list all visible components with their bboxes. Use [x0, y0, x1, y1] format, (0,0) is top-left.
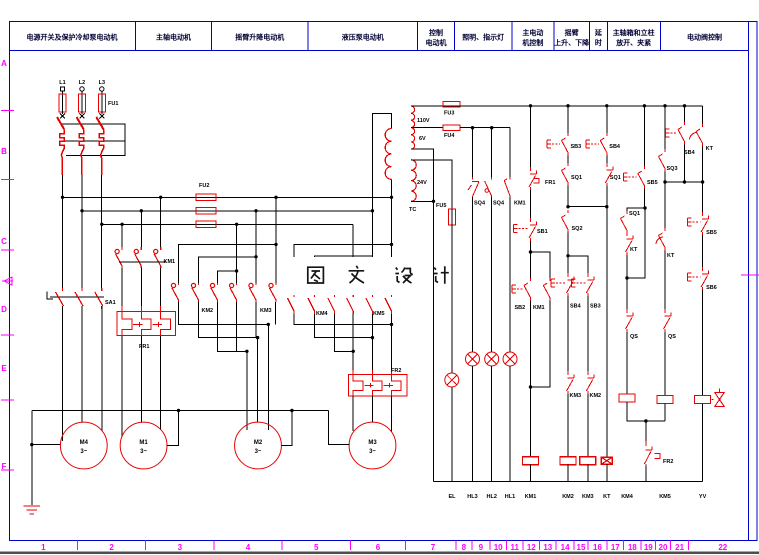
svg-text:SQ4: SQ4	[493, 201, 505, 207]
svg-text:M3: M3	[368, 440, 377, 446]
svg-text:SQ1: SQ1	[571, 175, 582, 181]
KM4 crossover feed rail 1	[294, 244, 392, 294]
svg-text:6V: 6V	[419, 136, 426, 142]
breaker QS terminal x marks	[60, 111, 104, 119]
limit switch SQ1 NO contact (arm)	[621, 211, 628, 232]
start button SB3 NO contact	[547, 133, 568, 156]
svg-text:照明、指示灯: 照明、指示灯	[462, 33, 504, 42]
svg-text:6: 6	[376, 543, 381, 552]
control circuit bottom bus	[434, 481, 703, 483]
lamp HL2	[485, 352, 499, 366]
24V top tap wire to FU5 line	[411, 160, 452, 209]
phase wire L3 vertical down to SA1	[101, 175, 103, 291]
link bar rung5-rung7	[665, 181, 703, 183]
PE earth bus horizontal	[32, 410, 329, 412]
motor M3 circle	[349, 422, 396, 469]
svg-text:A: A	[1, 59, 7, 68]
svg-text:5: 5	[314, 543, 319, 552]
thermal relay FR1 NC contact	[529, 167, 539, 190]
bottom window edge line	[0, 551, 759, 554]
svg-text:9: 9	[479, 543, 484, 552]
limit switch SQ4 contact b	[485, 177, 492, 199]
watermark text 图 文 设 计	[308, 266, 449, 284]
KM4 crossover feed rail 2	[315, 256, 373, 294]
svg-text:KM1: KM1	[514, 201, 526, 207]
svg-text:EL: EL	[448, 494, 456, 500]
svg-text:SB2: SB2	[515, 305, 526, 311]
svg-text:QS: QS	[630, 334, 638, 340]
svg-text:KT: KT	[667, 253, 675, 259]
svg-text:2: 2	[109, 543, 114, 552]
KM1 output wires into FR1	[121, 268, 123, 311]
watermark glyph SHE (设)	[395, 268, 412, 284]
FR2 output wires to motor M3	[352, 396, 354, 431]
valve symbol	[712, 389, 725, 407]
svg-text:M1: M1	[139, 440, 148, 446]
start button SB2 (NO pushbutton)	[512, 278, 531, 301]
button SB5 NC contact	[688, 212, 709, 235]
fuse FU2 pole 2	[196, 208, 216, 215]
svg-text:SB5: SB5	[647, 180, 658, 186]
svg-text:SQ1: SQ1	[629, 211, 640, 217]
limit switch SQ1 NC contact	[605, 163, 613, 186]
motor M2 circle	[235, 422, 282, 469]
svg-text:电源开关及保护冷却泵电动机: 电源开关及保护冷却泵电动机	[27, 33, 118, 42]
svg-text:机控制: 机控制	[522, 38, 543, 47]
watermark glyph JI (计)	[434, 266, 449, 284]
svg-text:KM1: KM1	[164, 259, 176, 265]
FR2 input wires	[352, 351, 354, 374]
svg-text:KM3: KM3	[570, 393, 582, 399]
svg-text:SA1: SA1	[105, 300, 116, 306]
bypass branch around SQ1+KT	[627, 208, 645, 278]
inner right frame line	[748, 22, 750, 541]
fuse FU1 pole 2	[81, 91, 83, 113]
svg-text:主轴箱和立柱: 主轴箱和立柱	[613, 28, 655, 37]
button SB5 NO contact	[623, 166, 644, 189]
svg-text:C: C	[1, 237, 7, 246]
contactor KM2 main contact 2	[191, 283, 198, 302]
svg-text:HL3: HL3	[467, 494, 477, 500]
rung4 rail from bus	[643, 106, 645, 166]
svg-text:7: 7	[431, 543, 436, 552]
svg-text:F: F	[2, 462, 7, 471]
svg-text:SB6: SB6	[706, 285, 717, 291]
cross link rung2-rung3	[568, 206, 607, 208]
svg-text:17: 17	[611, 543, 620, 552]
svg-text:3~: 3~	[369, 449, 376, 455]
contactor KM5 coil	[657, 396, 673, 404]
svg-text:SB3: SB3	[571, 144, 582, 150]
phase wire L2 vertical down to SA1	[81, 175, 83, 291]
svg-text:3~: 3~	[140, 449, 147, 455]
svg-text:摇臂升降电动机: 摇臂升降电动机	[235, 33, 284, 42]
svg-text:SB3: SB3	[590, 304, 601, 310]
transformer TC primary bottom link	[391, 179, 393, 197]
svg-text:KT: KT	[706, 146, 714, 152]
lamp rail HL1	[509, 128, 511, 177]
KM2 feed drop from phase2 tap	[255, 211, 257, 283]
svg-text:KM2: KM2	[590, 393, 602, 399]
svg-text:KM5: KM5	[659, 494, 671, 500]
switch SA1 pole 2	[75, 288, 83, 309]
branch to KM3 rung	[568, 256, 588, 273]
svg-text:12: 12	[527, 543, 536, 552]
KM4 crossover feed rail 3	[334, 267, 353, 294]
KM2 crossover feed rail 1	[179, 244, 277, 283]
svg-text:主电动: 主电动	[522, 28, 543, 37]
svg-text:KM5: KM5	[373, 311, 385, 317]
svg-text:FU2: FU2	[199, 183, 209, 189]
contactor KM2 NC interlock contact	[586, 371, 594, 394]
junction dots on phase columns	[61, 196, 104, 226]
button SB4 NO contact	[586, 133, 607, 156]
6V mid tap wire to FU4	[411, 127, 443, 129]
time relay KT coil	[601, 457, 612, 464]
bottom ruler zone numbers	[41, 543, 728, 552]
rung3 rail from bus	[606, 106, 608, 133]
transformer TC secondary 110V/6V winding	[411, 106, 415, 149]
KM2/KM3 output merge rail 2	[199, 302, 258, 338]
fuse FU4	[443, 125, 460, 130]
rung1 rail from bus	[530, 106, 532, 167]
contactor KM3 main contact 2	[249, 283, 256, 302]
svg-text:放开、夹紧: 放开、夹紧	[615, 38, 651, 47]
svg-text:SB5: SB5	[706, 230, 717, 236]
svg-text:FU3: FU3	[444, 111, 454, 117]
svg-text:TC: TC	[409, 207, 416, 213]
fuse FU1 pole 3	[101, 91, 103, 113]
M2 frame link	[282, 411, 292, 446]
svg-text:D: D	[1, 305, 7, 314]
breaker QS linkage box	[62, 124, 125, 155]
fuse FU3	[443, 102, 460, 108]
fuse FU5	[448, 209, 455, 225]
svg-text:SQ2: SQ2	[572, 226, 583, 232]
svg-text:QS: QS	[668, 334, 676, 340]
rung7 rail from bus corner	[702, 106, 704, 124]
svg-text:14: 14	[561, 543, 570, 552]
svg-text:摇臂: 摇臂	[565, 28, 579, 37]
svg-text:16: 16	[593, 543, 602, 552]
rung6 rail from bus	[684, 106, 686, 122]
svg-text:21: 21	[675, 543, 684, 552]
svg-text:FU5: FU5	[436, 203, 446, 209]
svg-text:FR1: FR1	[139, 344, 149, 350]
contactor KM1 main contact 2	[134, 247, 141, 268]
contactor KM1 drop wire 3 from phase1 tap	[160, 197, 162, 247]
button SB6 NC contact	[688, 267, 709, 290]
interlock button SB4 NC contact	[551, 273, 574, 296]
watermark background band	[283, 257, 423, 295]
control bus from FU3 to ladder	[460, 105, 702, 107]
M1 frame link	[167, 411, 178, 446]
110V tap wire to FU3	[411, 105, 443, 107]
KM4/KM5 output merge rail 1	[294, 314, 392, 324]
lamp rail HL2	[491, 128, 493, 177]
svg-text:液压泵电动机: 液压泵电动机	[342, 33, 384, 42]
svg-text:11: 11	[510, 543, 519, 552]
lamp EL	[445, 373, 459, 387]
transformer TC primary feed from phase2	[372, 114, 391, 211]
contactor KM5 main contact 2	[366, 294, 373, 314]
limit switch SQ2 NO contact	[562, 210, 569, 233]
svg-text:FR1: FR1	[545, 180, 555, 186]
motor M1 circle	[120, 422, 167, 469]
svg-text:M4: M4	[80, 440, 89, 446]
contactor KM3 main contact 3	[269, 283, 276, 302]
time relay KT NC contact	[626, 232, 634, 255]
svg-text:FU4: FU4	[444, 133, 455, 139]
M3 frame link	[328, 411, 349, 445]
contactor KM1 drop wire 2 from phase2 tap	[140, 211, 142, 247]
switch SA1 handle bracket	[47, 292, 53, 300]
stop button SB1 (NC pushbutton)	[514, 218, 537, 241]
svg-text:YV: YV	[699, 494, 707, 500]
svg-text:3~: 3~	[255, 449, 262, 455]
svg-text:3~: 3~	[80, 449, 87, 455]
KM2/KM3 output merge rail 3	[218, 302, 247, 351]
bottom terminal labels	[448, 494, 706, 500]
jog to SQ1 column	[627, 189, 644, 212]
contactor KM4 main contact 1	[288, 294, 295, 314]
breaker QS pole 1 contact	[57, 117, 64, 175]
motor M2 supply drops	[246, 351, 248, 430]
limit switch SQ4 contact a	[468, 177, 479, 199]
fuse FU1 pole 1	[62, 91, 64, 113]
svg-text:KM3: KM3	[260, 308, 272, 314]
svg-text:13: 13	[543, 543, 552, 552]
svg-text:22: 22	[718, 543, 727, 552]
svg-text:10: 10	[494, 543, 503, 552]
solenoid valve YV coil	[695, 396, 711, 404]
svg-text:24V: 24V	[417, 180, 427, 186]
branch to KM1 self-hold	[531, 252, 550, 278]
SA1 output wires to motor M4	[62, 306, 64, 441]
phase2 feed vertical continuing to KM5	[371, 211, 373, 294]
contactor KM1 drop wire 1 from phase3 tap	[121, 224, 123, 247]
PE bus left drop to ground	[31, 411, 33, 506]
contactor KM1 aux self-hold contact	[543, 278, 550, 301]
contactor KM5 main contact 3	[385, 294, 392, 314]
contactor KM2 coil	[567, 394, 569, 457]
svg-text:8: 8	[462, 543, 467, 552]
svg-text:KM1: KM1	[533, 305, 545, 311]
motor M4 circle	[60, 422, 107, 469]
contactor KM4 coil	[619, 394, 635, 402]
svg-text:SQ4: SQ4	[474, 201, 486, 207]
thermal relay FR2 heater element	[349, 370, 408, 400]
contactor KM1 linkage line	[119, 261, 166, 263]
KM2/KM3 output merge rail 1	[179, 302, 276, 324]
contactor KM1 main contact 3	[154, 247, 161, 268]
svg-text:SB4: SB4	[609, 144, 621, 150]
svg-text:SB4: SB4	[570, 304, 582, 310]
KM4/KM5 output merge rail 2	[315, 314, 373, 338]
svg-text:L2: L2	[79, 80, 85, 86]
tap bus phase 1 horizontal	[63, 196, 392, 198]
svg-text:SB1: SB1	[537, 229, 548, 235]
contactor KM1 main contact 1	[115, 247, 122, 268]
contactor KM1 aux contact for HL1	[504, 177, 510, 199]
limit switch SQ3 NO contact	[659, 149, 666, 172]
svg-text:M2: M2	[254, 440, 263, 446]
svg-text:FR2: FR2	[391, 368, 401, 374]
6V bottom tap and return wire	[411, 149, 434, 482]
fuse FU2 pole 3	[196, 221, 216, 228]
lamp rail HL3	[472, 128, 474, 177]
svg-text:18: 18	[628, 543, 637, 552]
svg-text:HL2: HL2	[487, 494, 497, 500]
svg-text:110V: 110V	[417, 118, 430, 124]
svg-text:KM2: KM2	[562, 494, 574, 500]
svg-text:19: 19	[644, 543, 653, 552]
svg-text:FU1: FU1	[108, 101, 118, 107]
svg-text:B: B	[1, 147, 7, 156]
svg-text:3: 3	[178, 543, 183, 552]
button SB4 NO contact (clamp)	[666, 122, 685, 145]
left ruler ticks	[1, 110, 14, 470]
right centering mark	[741, 274, 759, 276]
KM2 crossover feed rail 2	[199, 257, 257, 283]
svg-text:控制: 控制	[429, 28, 443, 37]
24V bottom tap joining return	[411, 200, 434, 202]
limit switch SQ1 NO contact	[562, 163, 569, 186]
phase wire L1 vertical down to SA1	[61, 175, 63, 291]
QS NC contact before KM5 coil	[664, 309, 672, 332]
phase3 feed vertical to KM5	[352, 224, 354, 294]
svg-text:KM3: KM3	[582, 494, 594, 500]
svg-text:FR2: FR2	[663, 459, 673, 465]
svg-text:SQ1: SQ1	[610, 175, 621, 181]
contactor KM2 main contact 1	[171, 283, 178, 302]
transformer TC secondary 24V winding	[411, 160, 416, 202]
lamp HL1	[503, 352, 517, 366]
KM4/KM5 coil bottom link	[627, 402, 665, 421]
svg-text:L3: L3	[99, 80, 105, 86]
svg-text:上升、下降: 上升、下降	[554, 38, 590, 47]
contactor KM3 coil	[587, 394, 589, 457]
switch SA1 pole 1	[56, 288, 64, 309]
KM2 feed drop from phase3 tap	[236, 224, 238, 283]
contactor KM5 main contact 1	[347, 294, 354, 314]
svg-text:KT: KT	[630, 247, 638, 253]
interlock button SB3 NC contact	[572, 273, 594, 296]
svg-text:L1: L1	[59, 80, 65, 86]
tap bus phase 3 horizontal	[102, 223, 353, 225]
ground symbol	[24, 506, 41, 514]
lamp HL3	[466, 352, 480, 366]
watermark glyph TU (图)	[308, 267, 324, 283]
rung5 rail from bus	[664, 106, 666, 149]
svg-text:4: 4	[246, 543, 251, 552]
bottom ruler ticks	[78, 541, 689, 550]
breaker QS pole 3 contact	[96, 117, 103, 175]
contactor KM4 main contact 2	[308, 294, 315, 314]
svg-text:主轴电动机: 主轴电动机	[156, 33, 191, 42]
KM2 feed drop from phase1 tap	[275, 197, 277, 283]
svg-text:SQ3: SQ3	[667, 166, 678, 172]
svg-text:KM4: KM4	[316, 311, 329, 317]
svg-text:20: 20	[659, 543, 668, 552]
contactor KM3 main contact 1	[230, 283, 237, 302]
svg-text:SB4: SB4	[684, 150, 696, 156]
contactor KM2 main contact 3	[210, 283, 217, 302]
svg-text:电动机: 电动机	[426, 38, 447, 47]
svg-text:1: 1	[41, 543, 46, 552]
rung2 rail from bus	[567, 106, 569, 133]
self-hold rejoin	[531, 301, 550, 388]
transformer TC primary winding	[385, 129, 391, 180]
header table bottom line	[10, 50, 749, 52]
M4 frame link	[32, 444, 60, 446]
KM2 crossover feed rail 3	[218, 271, 237, 283]
svg-text:KM1: KM1	[525, 494, 537, 500]
switch SA1 linkage line	[50, 296, 104, 298]
time relay KT delayed contact (on-delay)	[656, 228, 665, 251]
contactor KM3 NC interlock contact	[567, 371, 575, 394]
svg-text:KM4: KM4	[621, 494, 634, 500]
left centering arrow mark	[2, 277, 13, 285]
phase1 feed vertical to KM5	[391, 197, 393, 294]
FR2 NC contact line to bus	[645, 421, 647, 441]
fuse FU2 pole 1	[196, 194, 216, 201]
thermal relay FR1 heater element	[117, 306, 176, 341]
svg-text:延: 延	[594, 28, 603, 37]
svg-text:KM2: KM2	[202, 308, 214, 314]
contactor KM4 main contact 3	[328, 294, 335, 314]
thermal relay FR2 NC contact	[644, 441, 660, 466]
KM4/KM5 output merge rail 3	[334, 314, 353, 351]
header table column dividers	[135, 22, 660, 51]
svg-text:E: E	[1, 364, 7, 373]
svg-text:电动阀控制: 电动阀控制	[687, 33, 722, 42]
contactor KM1 coil	[523, 457, 539, 465]
watermark glyph WEN (文)	[349, 266, 365, 283]
lighting bus from FU4	[460, 127, 510, 129]
lamp branch EL wire	[451, 372, 453, 374]
time relay KT NO delayed contact	[690, 124, 703, 147]
tap bus phase 2 horizontal	[82, 210, 372, 212]
svg-text:KT: KT	[603, 494, 611, 500]
QS NC contact before KM4 coil	[626, 278, 634, 332]
breaker QS pole 2 contact	[77, 117, 84, 175]
svg-text:HL1: HL1	[505, 494, 515, 500]
svg-text:时: 时	[595, 38, 602, 47]
FR1 output wires to motor M1	[121, 336, 123, 437]
switch SA1 pole 3	[95, 288, 103, 309]
svg-text:15: 15	[577, 543, 586, 552]
